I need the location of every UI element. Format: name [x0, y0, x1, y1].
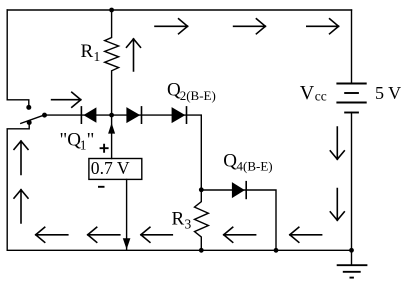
svg-text:5 V: 5 V [375, 83, 401, 103]
svg-text:R: R [81, 41, 94, 62]
svg-text:Q: Q [223, 150, 237, 171]
svg-text:0.7 V: 0.7 V [91, 158, 130, 178]
svg-text:1: 1 [80, 138, 87, 153]
svg-text:2(B-E): 2(B-E) [180, 88, 216, 103]
svg-text:"Q: "Q [60, 130, 82, 151]
svg-text:": " [87, 130, 95, 151]
svg-text:1: 1 [94, 49, 101, 64]
svg-text:4(B-E): 4(B-E) [237, 159, 273, 174]
svg-text:cc: cc [315, 89, 327, 104]
svg-text:3: 3 [185, 217, 192, 232]
svg-text:R: R [172, 209, 185, 230]
svg-text:V: V [300, 82, 315, 104]
